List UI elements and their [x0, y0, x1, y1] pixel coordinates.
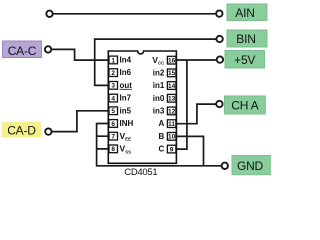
terminal circle left top [46, 11, 52, 17]
svg-text:2: 2 [111, 70, 115, 77]
wire BIN net to pin 3 out [95, 39, 217, 85]
label AIN [227, 4, 267, 21]
svg-text:in1: in1 [153, 81, 165, 90]
pin 1 box [109, 56, 118, 64]
pin 8 box [109, 145, 118, 153]
svg-text:+5V: +5V [234, 53, 255, 67]
pin 7 box [109, 132, 118, 140]
terminal circle GND [222, 163, 228, 169]
svg-text:AIN: AIN [235, 6, 254, 20]
pin 5 box [109, 107, 118, 115]
pin 14 box [167, 82, 176, 90]
wire CA-D to pin 5 in5 [52, 111, 109, 132]
pin 11 box [167, 120, 176, 128]
svg-text:12: 12 [168, 108, 176, 115]
svg-text:in0: in0 [153, 94, 165, 103]
svg-text:CA-D: CA-D [7, 123, 36, 137]
svg-text:CH A: CH A [231, 99, 258, 113]
svg-text:in3: in3 [153, 107, 165, 116]
label CA-D [2, 122, 42, 138]
wire CA-C to pin 1 In4 [51, 49, 108, 60]
svg-text:7: 7 [111, 134, 115, 141]
pin 6 box [109, 120, 118, 128]
terminal circle CH A [216, 101, 222, 107]
pin 12 box [167, 107, 176, 115]
svg-text:3: 3 [111, 83, 115, 90]
terminal circle CA-D [45, 128, 51, 134]
svg-text:A: A [159, 119, 165, 128]
svg-text:13: 13 [168, 96, 176, 103]
wire ground rail INH VEE VSS to GND [97, 124, 222, 166]
terminal circle BIN [216, 36, 222, 42]
pin 2 box [109, 69, 118, 77]
wire pin 10 B to ground rail [176, 136, 203, 165]
svg-text:CA-C: CA-C [8, 44, 37, 58]
pin 10 box [167, 133, 176, 141]
terminal circle CA-C [45, 46, 51, 52]
svg-text:In7: In7 [120, 94, 132, 103]
svg-text:INH: INH [120, 119, 134, 128]
label +5V [225, 51, 265, 69]
svg-text:CD4051: CD4051 [124, 167, 157, 178]
pin 3 box [109, 82, 118, 90]
pin 13 box [167, 94, 176, 102]
svg-text:out: out [120, 81, 133, 90]
svg-text:In4: In4 [120, 56, 132, 65]
label GND [232, 156, 272, 175]
label CA-C [3, 41, 42, 58]
svg-text:B: B [159, 132, 165, 141]
wire +5V net to pin 16 Vcc [176, 59, 216, 61]
svg-text:8: 8 [111, 146, 115, 153]
svg-text:11: 11 [168, 121, 175, 128]
wire CH A to pin 11 A [176, 104, 216, 124]
label BIN [227, 30, 267, 47]
svg-text:C: C [159, 145, 165, 154]
IC U1 CD4051 body [108, 51, 176, 163]
pin 4 box [109, 94, 118, 102]
svg-text:in2: in2 [153, 68, 165, 77]
svg-text:10: 10 [168, 134, 176, 141]
pin 9 box [167, 145, 176, 153]
svg-text:14: 14 [168, 83, 176, 90]
svg-text:In6: In6 [120, 68, 132, 77]
svg-text:1: 1 [111, 57, 115, 64]
svg-text:5: 5 [111, 108, 115, 115]
label CH A [225, 96, 266, 114]
wire AIN net [53, 13, 216, 15]
terminal circle +5V [217, 56, 223, 62]
svg-text:in5: in5 [120, 106, 132, 115]
pin 16 box [167, 56, 176, 64]
pin 15 box [167, 69, 176, 77]
svg-text:4: 4 [111, 95, 115, 102]
svg-text:16: 16 [168, 58, 176, 65]
terminal circle AIN [216, 10, 222, 16]
svg-text:BIN: BIN [236, 32, 255, 46]
svg-text:GND: GND [237, 159, 264, 173]
svg-text:15: 15 [168, 70, 176, 77]
svg-text:6: 6 [111, 121, 115, 128]
wire +5V branch to pin 9 C [176, 60, 187, 149]
svg-text:9: 9 [170, 146, 174, 153]
